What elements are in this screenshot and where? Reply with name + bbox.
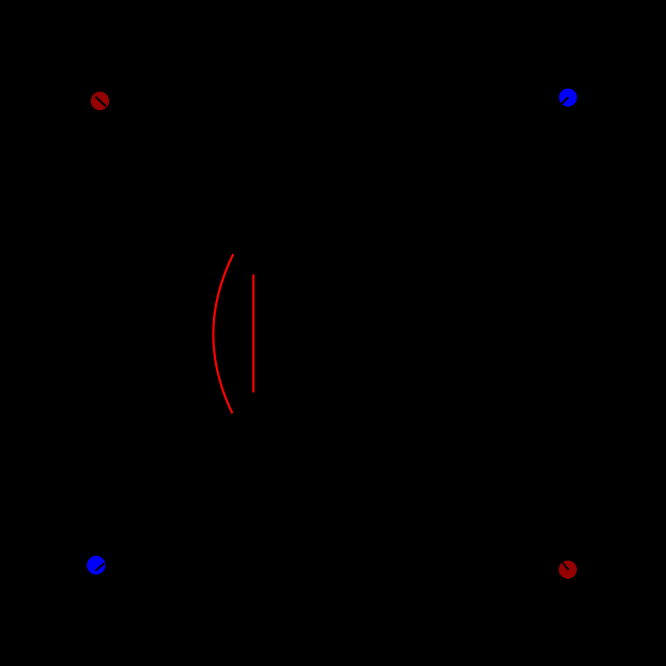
- charge Q4 (bottom-right, dark red): [559, 561, 577, 579]
- charge Q3 (bottom-left, blue): [87, 556, 106, 575]
- field line arc (red): [213, 254, 233, 413]
- wire slash over Q2: [561, 97, 568, 104]
- charge Q1 (top-left, dark red): [91, 92, 109, 110]
- field line segment (red vertical): [252, 275, 254, 393]
- wire slash over Q1: [95, 97, 106, 107]
- charge Q2 (top-right, blue): [559, 89, 577, 107]
- wire slash over Q4: [563, 563, 569, 570]
- wire slash over Q3: [95, 563, 104, 570]
